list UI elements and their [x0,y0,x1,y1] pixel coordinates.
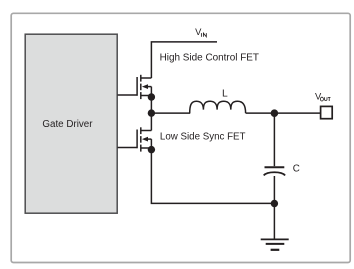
svg-text:Gate Driver: Gate Driver [42,119,93,130]
svg-text:C: C [293,163,300,174]
svg-text:L: L [222,89,228,100]
svg-text:Low Side Sync FET: Low Side Sync FET [160,132,246,143]
svg-text:High Side Control FET: High Side Control FET [160,53,259,64]
svg-text:V: V [315,90,322,101]
